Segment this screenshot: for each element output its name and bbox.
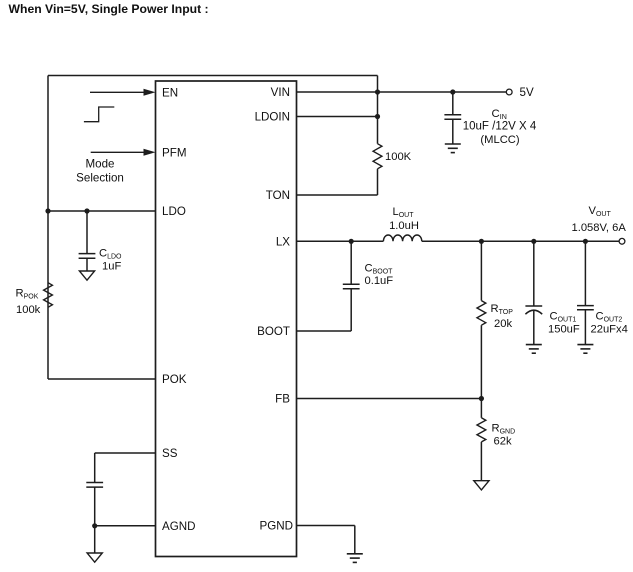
wire POK pin	[48, 378, 156, 380]
capacitor COUT2	[577, 306, 594, 310]
ground below AGND	[87, 553, 102, 562]
svg-text:PFM: PFM	[162, 146, 186, 159]
wire VIN pin to 5V	[297, 91, 507, 93]
svg-text:LOUT: LOUT	[392, 206, 414, 219]
resistor RPOK	[44, 283, 53, 308]
svg-text:VOUT: VOUT	[589, 205, 612, 218]
pin label LX	[276, 235, 290, 248]
wire COUT1 upper lead	[533, 241, 535, 306]
label CBOOT value	[365, 263, 394, 288]
svg-text:RPOK: RPOK	[16, 287, 39, 300]
node junction FB	[479, 396, 484, 401]
capacitor CIN	[444, 115, 461, 120]
title text	[9, 2, 209, 16]
wire LX pin to inductor	[297, 240, 384, 242]
svg-text:10uF /12V X 4: 10uF /12V X 4	[463, 120, 537, 132]
node junction CBOOT	[349, 239, 354, 244]
wire FB pin	[297, 398, 482, 400]
svg-text:PGND: PGND	[260, 520, 294, 533]
label 5V	[520, 86, 534, 99]
arrow into PFM	[91, 149, 156, 156]
resistor RTOP	[477, 301, 486, 326]
capacitor COUT1 polarized	[525, 306, 542, 314]
svg-text:CBOOT: CBOOT	[365, 263, 394, 276]
label 100K	[385, 151, 412, 163]
svg-text:Mode: Mode	[85, 158, 114, 171]
step waveform symbol	[84, 107, 114, 122]
wire left rail vertical	[47, 76, 49, 380]
svg-text:CLDO: CLDO	[99, 248, 122, 261]
svg-text:SS: SS	[162, 447, 178, 460]
wire RTOP upper lead	[480, 241, 482, 300]
wire CIN upper lead	[452, 92, 454, 115]
node junction CIN	[450, 89, 455, 94]
pin label TON	[266, 189, 290, 202]
wire top loop horizontal	[48, 75, 378, 77]
svg-text:1uF: 1uF	[102, 261, 121, 273]
svg-text:20k: 20k	[494, 318, 512, 330]
ground below COUT2	[577, 345, 593, 354]
wire inductor to VOUT terminal	[422, 240, 619, 242]
svg-text:RGND: RGND	[492, 423, 516, 436]
wire LDO pin	[48, 210, 156, 212]
node junction on LDO at CLDO	[84, 208, 89, 213]
wire COUT2 lower lead	[584, 310, 586, 345]
wire COUT1 lower lead	[533, 310, 535, 344]
label RPOK value	[16, 287, 41, 316]
wire VIN to RTON upper	[377, 92, 379, 144]
node junction on LDO at rail	[45, 208, 50, 213]
svg-text:BOOT: BOOT	[257, 325, 290, 338]
pin label SS	[162, 447, 178, 460]
wire LDOIN pin	[297, 116, 378, 118]
svg-text:LDOIN: LDOIN	[255, 111, 290, 124]
svg-text:VIN: VIN	[271, 86, 290, 99]
svg-text:5V: 5V	[520, 86, 534, 99]
wire COUT2 upper lead	[584, 241, 586, 305]
resistor RGND	[477, 418, 486, 442]
capacitor CLDO	[79, 254, 96, 259]
wire CIN lower lead	[452, 119, 454, 144]
svg-text:LX: LX	[276, 235, 290, 248]
pin label POK	[162, 373, 187, 386]
svg-text:100k: 100k	[16, 304, 41, 316]
wire SS cap upper lead	[94, 453, 96, 483]
label LOUT value	[389, 206, 419, 232]
svg-text:AGND: AGND	[162, 520, 196, 533]
svg-text:(MLCC): (MLCC)	[480, 134, 519, 146]
pin label PGND	[260, 520, 294, 533]
wire AGND pin	[95, 525, 156, 527]
pin label AGND	[162, 520, 196, 533]
wire RTON lower to TON	[377, 169, 379, 195]
svg-text:TON: TON	[266, 189, 290, 202]
label RGND value	[492, 423, 516, 448]
svg-text:1.058V, 6A: 1.058V, 6A	[572, 222, 627, 234]
ground below RGND	[474, 481, 489, 490]
wire SS pin	[95, 452, 156, 454]
op-amp U1 IC body	[156, 81, 297, 557]
node junction COUT2	[583, 239, 588, 244]
wire CLDO upper lead	[86, 211, 88, 254]
wire RTOP lower to FB	[480, 325, 482, 398]
svg-text:When Vin=5V, Single Power Inpu: When Vin=5V, Single Power Input :	[9, 2, 209, 16]
svg-text:150uF: 150uF	[548, 324, 580, 336]
pin label LDO	[162, 205, 186, 218]
svg-text:COUT1: COUT1	[550, 311, 577, 324]
ground below CIN	[445, 144, 461, 153]
terminal VOUT	[619, 238, 625, 244]
wire PGND down lead	[354, 526, 356, 554]
wire CBOOT upper lead	[350, 241, 352, 284]
svg-text:Selection: Selection	[76, 172, 124, 185]
pin label FB	[275, 393, 290, 406]
wire SS cap lower lead	[94, 487, 96, 526]
label COUT2 value	[591, 311, 628, 336]
ground below COUT1	[526, 345, 542, 354]
label CLDO value	[99, 248, 122, 273]
node junction COUT1	[531, 239, 536, 244]
wire PGND pin	[297, 525, 355, 527]
arrow into EN	[90, 89, 156, 96]
svg-text:62k: 62k	[494, 436, 512, 448]
node junction at AGND	[92, 523, 97, 528]
pin label LDOIN	[255, 111, 290, 124]
svg-text:RTOP: RTOP	[491, 303, 514, 316]
svg-text:LDO: LDO	[162, 205, 186, 218]
pin label PFM	[162, 146, 186, 159]
capacitor on SS	[86, 483, 103, 488]
ground below CLDO	[79, 271, 94, 280]
wire top loop drop to VIN	[377, 76, 379, 93]
wire FB to RGND	[480, 399, 482, 418]
resistor 100K	[373, 144, 382, 169]
inductor LOUT	[383, 235, 421, 241]
svg-text:EN: EN	[162, 86, 178, 99]
node junction LDOIN	[375, 114, 380, 119]
wire CBOOT lower lead	[350, 289, 352, 331]
svg-text:POK: POK	[162, 373, 187, 386]
label CIN value	[463, 108, 537, 146]
wire CLDO lower lead	[86, 258, 88, 271]
svg-text:100K: 100K	[385, 151, 412, 163]
node junction VIN rail	[375, 89, 380, 94]
wire BOOT pin	[297, 330, 352, 332]
svg-text:FB: FB	[275, 393, 290, 406]
label VOUT	[572, 205, 627, 234]
svg-text:COUT2: COUT2	[596, 311, 623, 324]
svg-text:1.0uH: 1.0uH	[389, 220, 419, 232]
terminal 5V	[506, 89, 512, 95]
ground below PGND	[347, 554, 363, 563]
capacitor CBOOT	[343, 284, 360, 289]
svg-text:0.1uF: 0.1uF	[365, 275, 394, 287]
label COUT1 value	[548, 311, 580, 336]
svg-text:CIN: CIN	[492, 108, 507, 121]
label Mode Selection	[76, 158, 124, 185]
wire TON pin	[297, 194, 378, 196]
wire RGND lower lead	[480, 442, 482, 481]
pin label VIN	[271, 86, 290, 99]
wire AGND ground lead	[94, 526, 96, 553]
svg-text:22uFx4: 22uFx4	[591, 324, 628, 336]
label RTOP value	[491, 303, 514, 330]
node junction RTOP	[479, 239, 484, 244]
pin label BOOT	[257, 325, 290, 338]
pin label EN	[162, 86, 178, 99]
